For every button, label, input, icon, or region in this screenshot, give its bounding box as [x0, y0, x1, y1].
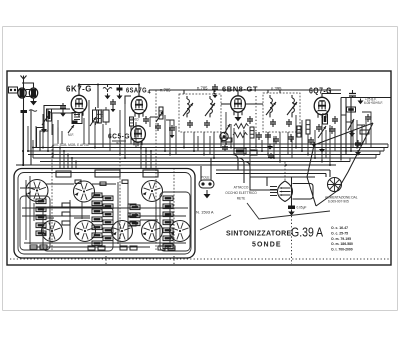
svg-text:G.39 A: G.39 A — [291, 225, 323, 240]
T1 secondary coil — [210, 96, 212, 117]
V4 pot arrow — [224, 124, 230, 134]
coil box outer — [14, 169, 195, 259]
zigzag Ra — [234, 124, 248, 129]
coil box inner — [18, 173, 191, 255]
T2 secondary coil — [292, 95, 294, 117]
bus elbow a — [220, 158, 244, 183]
svg-text:6BN8-GT: 6BN8-GT — [222, 85, 258, 94]
svg-text:O. c. 16-47: O. c. 16-47 — [331, 226, 348, 230]
screen resistor R1 — [97, 110, 102, 123]
coil D — [75, 221, 96, 242]
resistor R6 — [222, 138, 232, 142]
wire vertical taps — [23, 104, 362, 169]
V5 under gnd — [312, 142, 317, 147]
right cap b — [355, 140, 361, 148]
schematic frame — [7, 71, 391, 265]
svg-text:6.05+50+B.F.: 6.05+50+B.F. — [364, 101, 383, 105]
wire top bus A — [79, 85, 139, 109]
svg-text:O. l. 700-2000: O. l. 700-2000 — [331, 248, 353, 252]
svg-text:M.F.: M.F. — [68, 133, 74, 137]
antenna terminal — [9, 87, 18, 93]
gang line dashed 1 — [51, 146, 53, 250]
gnd C5 — [60, 111, 66, 117]
wire V4 top — [237, 90, 239, 96]
gang line dashed 3 — [155, 90, 157, 250]
osc coil — [270, 181, 293, 202]
T2 feed wires — [268, 90, 280, 93]
cap C13 — [365, 114, 371, 122]
left staircase 2 — [52, 113, 74, 144]
bus line 6 — [40, 161, 350, 163]
top boxes b — [95, 170, 120, 177]
wire staircase left — [31, 106, 70, 166]
V5 pot arrow — [318, 126, 326, 138]
ground C2 — [105, 94, 111, 100]
T1 primary coil — [187, 96, 189, 117]
gang line dashed 5 — [284, 162, 286, 180]
bus line 2 — [33, 147, 388, 149]
svg-text:OCCHIO ELETTRICO: OCCHIO ELETTRICO — [225, 191, 257, 195]
trimmer stack 1 — [92, 193, 102, 246]
tube V1 6K7-G — [71, 92, 87, 117]
junction dots — [22, 84, 363, 167]
bus inline box b — [250, 150, 257, 155]
ground R2 — [41, 127, 47, 133]
leader nline — [200, 215, 231, 230]
resistor R7 — [297, 126, 301, 137]
arrow R4 — [90, 117, 96, 126]
dotted drop 1 — [105, 256, 107, 264]
wire V1 grid — [78, 85, 80, 96]
bus line 1 — [88, 143, 388, 145]
wedge diagonal 3 — [307, 145, 337, 206]
T1 tuning arrows — [183, 103, 193, 116]
V4 resistor — [250, 127, 254, 138]
top boxes c — [143, 170, 158, 177]
wire mid steps — [150, 117, 174, 128]
dotted drop 2 — [173, 256, 175, 264]
svg-text:6C5-G: 6C5-G — [108, 132, 130, 141]
alim circle — [328, 178, 342, 192]
svg-text:6Q7-G: 6Q7-G — [309, 87, 332, 96]
tube V4 6BN8 — [231, 92, 246, 116]
antenna coupling coil L1 — [18, 83, 38, 98]
svg-text:6SA7G: 6SA7G — [126, 86, 147, 95]
tube V5 6Q7 — [314, 94, 330, 119]
svg-text:O. m. 79-195: O. m. 79-195 — [331, 237, 351, 241]
coil F — [142, 221, 163, 242]
svg-text:RETE: RETE — [237, 197, 246, 201]
label attacco — [225, 186, 257, 201]
tube V3 6C5-G — [131, 126, 146, 146]
trimmer stack 3 — [163, 196, 173, 249]
right arrow — [348, 119, 354, 130]
osc coil gnd — [288, 210, 295, 216]
right resistor Ra — [347, 107, 356, 112]
V5 under res — [323, 114, 328, 124]
svg-text:O. c. 25-75: O. c. 25-75 — [331, 231, 348, 235]
coil E — [112, 221, 133, 242]
arrow R5 — [156, 111, 163, 122]
connector feeds — [201, 158, 211, 180]
bus right ends — [350, 144, 388, 162]
bus line 4 — [28, 154, 380, 156]
gnd T2 — [267, 144, 273, 150]
cap C8 — [169, 125, 175, 133]
wire T1 to V4 — [221, 103, 231, 105]
bus inline box a — [234, 148, 246, 154]
svg-text:O. m. 186-580: O. m. 186-580 — [331, 242, 353, 246]
gnd C8 — [170, 133, 175, 138]
wire V5 top — [322, 94, 341, 98]
osc cap blob — [288, 206, 295, 210]
T2 trimmer caps — [270, 119, 292, 127]
tube V2 6SA7 — [131, 93, 147, 118]
gnd C6 — [111, 107, 116, 112]
V4 cap — [256, 132, 262, 140]
wire B+ top bus — [150, 89, 341, 91]
wire v2 cath — [125, 96, 131, 104]
svg-text:SINTONIZZATORE: SINTONIZZATORE — [226, 231, 292, 238]
inner shield right — [160, 192, 190, 251]
svg-text:6.009-907-905: 6.009-907-905 — [328, 200, 349, 204]
coil B — [74, 181, 95, 202]
svg-text:ATTACCO: ATTACCO — [234, 186, 249, 190]
enclosure wires — [22, 208, 188, 247]
IF transformer T1 box — [179, 94, 221, 132]
svg-text:n.785: n.785 — [160, 88, 171, 93]
arrow R2 — [42, 112, 51, 125]
V1 cathode box — [72, 113, 82, 124]
leader line — [247, 203, 330, 219]
trim row 4 — [158, 246, 175, 250]
coil H top — [142, 181, 163, 202]
coil G — [170, 221, 191, 242]
trimmer stack 2 — [103, 196, 113, 241]
osc right loop — [293, 184, 314, 200]
cap above V4 — [212, 84, 218, 92]
power connector gnd — [204, 190, 211, 198]
svg-text:POLE: POLE — [201, 176, 210, 180]
resistor pair R4 — [93, 107, 110, 125]
right gnd a — [349, 131, 355, 137]
V1 cath cap — [73, 121, 78, 124]
capacitor C4 — [143, 116, 149, 124]
T1 feed wires — [184, 90, 214, 94]
ground below L1 — [30, 98, 37, 105]
capacitor C1 — [21, 110, 38, 113]
resistor R8 — [360, 130, 369, 134]
dotted drop 3 — [291, 216, 293, 264]
V5 diode resistor — [306, 120, 310, 134]
encl top small caps — [75, 180, 128, 185]
wire right top — [341, 97, 391, 99]
cap C12 — [332, 116, 338, 124]
trim row 2 — [88, 246, 105, 250]
cap C11 — [308, 137, 314, 145]
dotted avc line — [255, 96, 257, 149]
wire right vert 2 — [345, 98, 347, 155]
T2 primary coil — [270, 95, 272, 117]
bus elbow b — [212, 155, 238, 171]
cap C5 — [60, 103, 66, 111]
bus line 7 — [16, 164, 336, 166]
V5 cathode cap — [329, 126, 335, 134]
T2 tuning arrows — [266, 102, 276, 115]
coil C — [42, 221, 63, 242]
cap C10 — [222, 145, 228, 151]
T2 bottom cap a — [265, 132, 271, 140]
encl wires 2 — [20, 184, 158, 240]
wire V4 to T2 — [245, 103, 263, 105]
gang line dashed 2 — [119, 158, 121, 250]
trim row 3 — [120, 246, 137, 250]
dotted baseline — [10, 258, 389, 260]
cap C9 — [247, 116, 253, 124]
band list — [331, 226, 353, 252]
T1 trimmer caps — [187, 120, 210, 128]
capacitor C3 — [117, 85, 123, 93]
gang line dashed 4 — [173, 168, 175, 250]
bus inline cap — [268, 153, 274, 159]
T2 bottom cap c — [288, 134, 294, 142]
trim row 1 — [30, 245, 47, 249]
enclosure verticals — [26, 176, 170, 244]
wire antenna down — [23, 113, 25, 166]
resistor R3 5200 — [130, 117, 134, 126]
coil A — [26, 180, 48, 202]
ground V4 — [235, 114, 242, 121]
right gnd b — [355, 150, 361, 156]
V1 avc arrow — [68, 125, 74, 133]
output arrow — [358, 99, 364, 105]
encl comp b — [128, 204, 136, 226]
inner shield mid — [43, 207, 113, 251]
T2 bottom cap b — [273, 136, 279, 144]
antenna — [21, 76, 27, 114]
wire right vert 3 — [350, 98, 352, 151]
zigzag Rb — [233, 133, 247, 138]
svg-text:n.785: n.785 — [197, 86, 208, 91]
resistor R2 — [47, 109, 52, 121]
trimmer stack 4 — [36, 199, 46, 236]
wire osc feed — [226, 162, 315, 191]
wedge diagonal 1 — [314, 123, 373, 145]
V3 grid leak — [112, 141, 126, 146]
wire grid left — [36, 100, 371, 158]
encl comp a — [62, 203, 70, 225]
capacitor C out — [349, 90, 356, 98]
bus line 5 — [33, 157, 376, 159]
wedge diagonal 2 — [337, 123, 373, 191]
resistor R5 — [159, 107, 163, 119]
bus line 3 — [28, 150, 384, 152]
label 6SA7G — [126, 86, 152, 96]
IF transformer T2 box — [263, 93, 300, 132]
wire right steps — [341, 112, 371, 125]
power connector — [199, 176, 214, 189]
gnd above V4 — [213, 93, 218, 98]
svg-text:5ONDE: 5ONDE — [252, 241, 282, 248]
jack circle — [220, 132, 228, 140]
svg-text:0.05μF: 0.05μF — [297, 206, 307, 210]
cap C6 — [110, 99, 116, 107]
osc vertical — [291, 177, 293, 206]
ground C3 — [117, 94, 123, 100]
V5 under cap — [316, 124, 322, 132]
top boxes a — [56, 171, 71, 177]
svg-text:5200Ω: 5200Ω — [129, 118, 139, 122]
inner shield left — [20, 196, 50, 250]
wire right vert 1 — [340, 98, 342, 161]
wire V2 top — [138, 85, 140, 97]
svg-text:N. 1593 A: N. 1593 A — [196, 210, 214, 215]
capacitor C2 — [103, 85, 112, 93]
trimmer stack 5 — [130, 205, 140, 226]
wire osc top pair — [216, 170, 330, 177]
gnd V5k — [319, 147, 325, 153]
cap C7 — [155, 123, 161, 131]
